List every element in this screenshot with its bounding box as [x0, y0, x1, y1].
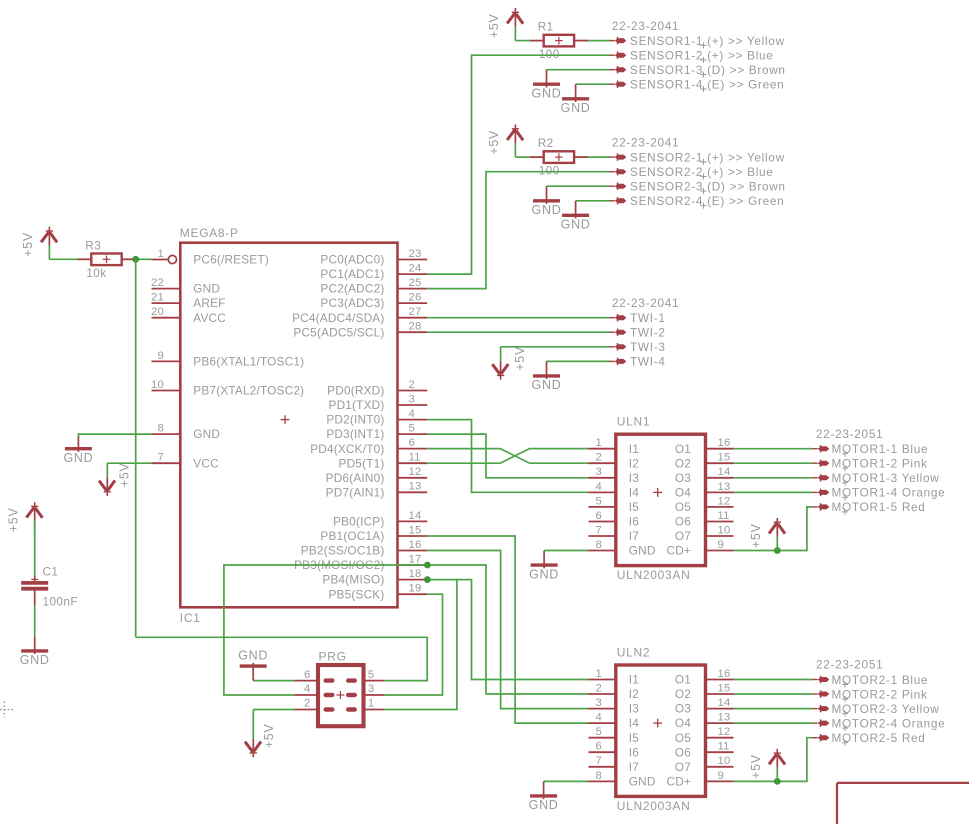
svg-text:+5V: +5V — [513, 346, 527, 371]
partial component frame bottom-right — [837, 783, 969, 824]
svg-text:16: 16 — [409, 539, 422, 551]
connector pin arrow TWI-3 — [610, 343, 627, 350]
svg-text:11: 11 — [718, 510, 730, 522]
connector pin arrow MOTOR2-1 — [813, 676, 830, 683]
pin origin cross SENSOR2-2 — [701, 174, 707, 180]
svg-text:PD2(INT0): PD2(INT0) — [326, 413, 384, 427]
pin origin cross SENSOR1-1 — [701, 42, 707, 48]
svg-text:19: 19 — [409, 583, 422, 595]
svg-text:CD+: CD+ — [666, 544, 691, 558]
svg-text:SENSOR2-1 (+) >> Yellow: SENSOR2-1 (+) >> Yellow — [630, 150, 785, 164]
IC1 pin 26 PC3(ADC3) — [320, 292, 427, 311]
svg-text:7: 7 — [596, 524, 602, 536]
svg-text:26: 26 — [409, 292, 422, 304]
svg-text:1: 1 — [596, 437, 602, 449]
svg-text:GND: GND — [532, 378, 562, 392]
IC IC1 MEGA8-P body — [180, 226, 398, 625]
sheet origin crosshair — [0, 702, 14, 718]
wire ULN1 O3 to MOTOR1-3 — [734, 477, 813, 479]
+5V supply at ULN2 CD+ — [749, 749, 785, 782]
wire ULN1 O1 to MOTOR1-1 — [734, 448, 813, 450]
ULN2 pin 10 O7 — [675, 755, 734, 774]
svg-text:11: 11 — [409, 452, 421, 464]
IC1 pin 5 PD3(INT1) — [326, 423, 427, 442]
svg-text:14: 14 — [718, 697, 731, 709]
IC1 pin 16 PB2(SS/OC1B) — [301, 539, 427, 558]
svg-text:GND: GND — [20, 653, 50, 667]
ground at TWI-4 — [532, 361, 562, 392]
svg-text:PC1(ADC1): PC1(ADC1) — [320, 267, 384, 281]
svg-text:3: 3 — [409, 393, 415, 405]
wire IC1 PD3 to ULN1 I3 — [427, 434, 588, 478]
ULN2 pin 6 I6 — [589, 741, 640, 760]
wire R1 to SENSOR1-1 — [588, 40, 610, 42]
svg-text:22: 22 — [151, 277, 164, 289]
wire IC1 PB2 to ULN2 I3 — [427, 551, 588, 709]
svg-text:SENSOR2-4 (E) >> Green: SENSOR2-4 (E) >> Green — [630, 194, 784, 208]
ULN2 pin 7 I7 — [589, 755, 640, 774]
wire +5V to R1 — [515, 40, 529, 42]
svg-text:8: 8 — [596, 539, 602, 551]
svg-text:GND: GND — [561, 101, 591, 115]
wire ULN1 CD+ to +5V and MOTOR1-5 — [734, 507, 813, 551]
ULN1 pin 10 O7 — [675, 524, 734, 543]
svg-text:+5V: +5V — [487, 13, 501, 38]
svg-text:SENSOR2-3 (D) >> Brown: SENSOR2-3 (D) >> Brown — [630, 180, 786, 194]
svg-text:O1: O1 — [675, 442, 691, 456]
svg-text:C1: C1 — [43, 565, 59, 579]
wire SENSOR1-2 to IC1 PC1 — [427, 55, 610, 274]
svg-text:23: 23 — [409, 248, 422, 260]
ULN1 pin 16 O1 — [675, 437, 734, 456]
svg-text:I3: I3 — [629, 471, 639, 485]
svg-text:GND: GND — [238, 649, 268, 663]
svg-text:13: 13 — [409, 481, 422, 493]
IC1 pin 24 PC1(ADC1) — [320, 262, 427, 281]
pin origin cross SENSOR2-1 — [701, 159, 707, 165]
ULN2 pin 15 O2 — [675, 682, 734, 701]
svg-text:4: 4 — [304, 683, 310, 695]
svg-text:10: 10 — [151, 379, 164, 391]
svg-text:I6: I6 — [629, 515, 639, 529]
svg-text:I5: I5 — [629, 500, 639, 514]
IC1 pin 17 PB3(MOSI/OC2) — [294, 553, 427, 572]
svg-text:GND: GND — [63, 451, 93, 465]
svg-text:6: 6 — [409, 437, 415, 449]
ground at SENSOR2-4 — [561, 201, 591, 232]
svg-text:100nF: 100nF — [43, 595, 78, 609]
IC1 pin 28 PC5(ADC5/SCL) — [293, 321, 427, 340]
svg-text:MEGA8-P: MEGA8-P — [180, 226, 239, 240]
wire IC1 PB5 SCK to PRG pin3 — [385, 594, 443, 695]
pin origin cross MOTOR1-3 — [842, 480, 848, 486]
svg-text:21: 21 — [151, 292, 164, 304]
wire IC1 PB1 to ULN2 I4 — [427, 536, 588, 723]
ULN1 pin 11 O6 — [675, 510, 734, 529]
svg-text:3: 3 — [368, 683, 374, 695]
svg-text:GND: GND — [193, 427, 220, 441]
IC1 pin 13 PD7(AIN1) — [326, 481, 428, 500]
svg-text:O7: O7 — [675, 760, 691, 774]
svg-text:14: 14 — [718, 466, 731, 478]
wire IC1 pin8 GND — [78, 434, 151, 438]
svg-text:12: 12 — [409, 466, 422, 478]
connector PRG body — [318, 650, 364, 727]
pin origin cross MOTOR2-3 — [842, 711, 848, 717]
wire TWI-3 to +5V — [501, 346, 611, 348]
svg-text:TWI-1: TWI-1 — [630, 311, 666, 325]
svg-text:I1: I1 — [629, 673, 639, 687]
wire IC1 PC5 to TWI-2 — [427, 331, 610, 333]
svg-text:GND: GND — [529, 798, 559, 812]
svg-text:I3: I3 — [629, 702, 639, 716]
wire IC1 PC4 to TWI-1 — [427, 317, 610, 319]
svg-text:2: 2 — [596, 682, 602, 694]
svg-text:22-23-2051: 22-23-2051 — [816, 658, 883, 672]
IC1 pin 18 PB4(MISO) — [322, 568, 427, 587]
svg-text:PD4(XCK/T0): PD4(XCK/T0) — [310, 442, 384, 456]
wire SENSOR2-3 to GND — [547, 185, 611, 187]
+5V supply at R1 — [487, 8, 523, 41]
svg-text:28: 28 — [409, 321, 422, 333]
svg-text:3: 3 — [596, 697, 602, 709]
svg-text:2: 2 — [409, 379, 415, 391]
pin origin cross SENSOR1-2 — [701, 57, 707, 63]
svg-text:1: 1 — [368, 698, 374, 710]
ULN2 pin 16 O1 — [675, 668, 734, 687]
ULN1 pin 5 I5 — [589, 495, 640, 514]
svg-text:O6: O6 — [675, 745, 691, 759]
PRG pin 4 — [294, 683, 334, 697]
wire ULN2 O1 to MOTOR2-1 — [734, 679, 813, 681]
svg-text:PD6(AIN0): PD6(AIN0) — [326, 471, 385, 485]
svg-text:16: 16 — [718, 437, 731, 449]
svg-text:10k: 10k — [86, 266, 106, 280]
svg-text:18: 18 — [409, 568, 422, 580]
svg-text:6: 6 — [596, 510, 602, 522]
svg-text:+5V: +5V — [117, 462, 131, 487]
svg-text:O3: O3 — [675, 471, 691, 485]
svg-text:5: 5 — [409, 423, 415, 435]
PRG pin 3 — [346, 683, 385, 697]
IC1 pin 9 PB6(XTAL1/TOSC1) — [152, 350, 305, 369]
wire SENSOR2-2 to IC1 PC2 — [427, 172, 610, 289]
ULN2 pin 8 GND — [589, 770, 656, 789]
svg-text:11: 11 — [718, 741, 730, 753]
svg-text:PC5(ADC5/SCL): PC5(ADC5/SCL) — [293, 325, 384, 339]
svg-text:PD1(TXD): PD1(TXD) — [329, 398, 385, 412]
svg-text:VCC: VCC — [193, 456, 219, 470]
svg-text:O6: O6 — [675, 515, 691, 529]
pin origin cross SENSOR1-4 — [701, 86, 707, 92]
wire ULN1 pin8 GND — [544, 550, 588, 552]
junction PB4 MISO — [424, 576, 431, 583]
resistor R3 10k — [77, 238, 135, 279]
connector pin arrow SENSOR2-3 — [610, 183, 627, 190]
ULN1 pin 12 O5 — [675, 495, 734, 514]
ULN1 pin 13 O4 — [675, 481, 734, 500]
svg-text:I2: I2 — [629, 687, 639, 701]
wire PRG pin2 to +5V — [253, 709, 294, 711]
svg-text:O5: O5 — [675, 500, 691, 514]
svg-text:TWI-2: TWI-2 — [630, 326, 666, 340]
svg-text:O7: O7 — [675, 529, 691, 543]
+5V supply at R2 — [487, 125, 523, 158]
pin origin cross MOTOR1-4 — [842, 494, 848, 500]
ULN1 pin 9 CD+ — [666, 539, 733, 558]
wire ULN2 O3 to MOTOR2-3 — [734, 708, 813, 710]
wire C1 to GND — [34, 605, 36, 637]
capacitor C1 100nF — [21, 520, 78, 608]
wire IC1 PD5 to ULN1 I1 (crossover) — [427, 449, 588, 464]
wire IC1 PD4 to ULN1 I2 (crossover) — [427, 449, 588, 464]
connector pin arrow SENSOR1-1 — [610, 37, 627, 44]
ground at SENSOR1-3 — [532, 70, 562, 101]
svg-text:PC0(ADC0): PC0(ADC0) — [320, 253, 384, 267]
PRG pin 6 — [294, 669, 334, 683]
svg-text:SENSOR1-1 (+) >> Yellow: SENSOR1-1 (+) >> Yellow — [630, 34, 785, 48]
svg-text:MOTOR2-4 Orange: MOTOR2-4 Orange — [832, 716, 946, 730]
wire +5V to R2 — [515, 156, 529, 158]
pin origin cross SENSOR2-3 — [701, 188, 707, 194]
svg-text:I4: I4 — [629, 716, 639, 730]
svg-text:AVCC: AVCC — [193, 311, 226, 325]
svg-text:PRG: PRG — [319, 650, 347, 664]
svg-text:PD7(AIN1): PD7(AIN1) — [326, 485, 385, 499]
svg-text:24: 24 — [409, 262, 422, 274]
connector pin arrow MOTOR2-4 — [813, 719, 830, 727]
svg-text:ULN1: ULN1 — [617, 415, 650, 429]
ULN1 pin 15 O2 — [675, 452, 734, 471]
junction ULN1 CD+ +5V — [774, 547, 781, 554]
IC1 pin 7 VCC — [152, 452, 220, 471]
svg-text:PB5(SCK): PB5(SCK) — [328, 587, 384, 601]
pin origin cross SENSOR1-3 — [701, 72, 707, 78]
ULN2 pin 1 I1 — [589, 668, 640, 687]
svg-text:PD3(INT1): PD3(INT1) — [326, 427, 384, 441]
svg-text:22-23-2041: 22-23-2041 — [612, 135, 679, 149]
svg-text:ULN2003AN: ULN2003AN — [617, 568, 691, 582]
svg-text:PB6(XTAL1/TOSC1): PB6(XTAL1/TOSC1) — [193, 355, 304, 369]
svg-text:8: 8 — [158, 423, 164, 435]
svg-text:IC1: IC1 — [180, 611, 201, 625]
IC ULN1 ULN2003AN body — [616, 415, 706, 583]
svg-text:PC6(/RESET): PC6(/RESET) — [193, 253, 269, 267]
svg-text:+5V: +5V — [262, 723, 276, 748]
wire PB4 MISO to PRG pin1 — [385, 580, 457, 710]
ULN2 pin 12 O5 — [675, 726, 734, 745]
IC1 pin 1 PC6(/RESET) — [152, 248, 269, 267]
wire R2 to SENSOR2-1 — [588, 156, 610, 158]
svg-text:O2: O2 — [675, 687, 691, 701]
svg-text:CD+: CD+ — [666, 775, 691, 789]
IC1 pin 10 PB7(XTAL2/TOSC2) — [151, 379, 304, 398]
connector pin arrow MOTOR1-2 — [813, 460, 830, 467]
svg-text:GND: GND — [529, 567, 559, 581]
ULN1 pin 14 O3 — [675, 466, 734, 485]
svg-text:GND: GND — [629, 775, 656, 789]
wire IC1 PB4 to ULN2 I1 — [427, 580, 588, 680]
connector pin arrow TWI-2 — [610, 329, 627, 336]
ULN2 pin 4 I4 — [589, 712, 640, 731]
+5V supply at ULN1 CD+ — [749, 518, 785, 551]
ULN2 pin 2 I2 — [589, 682, 640, 701]
connector pin arrow SENSOR1-2 — [610, 52, 627, 59]
ULN2 pin 3 I3 — [589, 697, 640, 716]
svg-text:GND: GND — [193, 282, 220, 296]
svg-text:MOTOR1-4 Orange: MOTOR1-4 Orange — [832, 486, 946, 500]
svg-text:8: 8 — [596, 770, 602, 782]
svg-text:9: 9 — [718, 539, 724, 551]
IC1 pin 3 PD1(TXD) — [329, 393, 428, 412]
svg-text:I5: I5 — [629, 731, 639, 745]
svg-text:PC2(ADC2): PC2(ADC2) — [320, 282, 384, 296]
svg-text:4: 4 — [596, 712, 602, 724]
svg-text:+5V: +5V — [487, 130, 501, 155]
connector pin arrow MOTOR1-3 — [813, 474, 830, 481]
svg-text:+5V: +5V — [21, 232, 35, 257]
junction PB3 MOSI — [424, 562, 431, 569]
wire +5V to R3 — [49, 258, 77, 260]
IC1 pin 15 PB1(OC1A) — [320, 524, 427, 543]
connector pin arrow SENSOR1-3 — [610, 66, 627, 73]
ULN2 pin 13 O4 — [675, 712, 734, 731]
svg-text:O2: O2 — [675, 456, 691, 470]
svg-text:7: 7 — [158, 452, 164, 464]
svg-text:TWI-3: TWI-3 — [630, 340, 666, 354]
svg-text:17: 17 — [409, 553, 422, 565]
ground at PRG pin6 — [238, 649, 268, 681]
svg-text:3: 3 — [596, 466, 602, 478]
connector pin arrow MOTOR2-2 — [813, 690, 830, 698]
connector pin arrow SENSOR2-2 — [610, 168, 627, 175]
wire SENSOR1-3 to GND — [547, 69, 611, 71]
pin origin cross MOTOR2-2 — [842, 696, 848, 702]
pin origin cross MOTOR1-5 — [842, 509, 848, 515]
svg-text:O1: O1 — [675, 673, 691, 687]
svg-text:100: 100 — [539, 47, 560, 61]
pin origin cross MOTOR1-1 — [842, 451, 848, 457]
+5V supply at R3 — [21, 227, 57, 260]
ULN1 pin 1 I1 — [589, 437, 640, 456]
svg-text:GND: GND — [629, 544, 656, 558]
connector pin arrow TWI-1 — [610, 314, 627, 321]
svg-text:PD5(T1): PD5(T1) — [339, 456, 385, 470]
svg-text:6: 6 — [304, 669, 310, 681]
wire ULN1 O2 to MOTOR1-2 — [734, 462, 813, 464]
IC1 pin 11 PD5(T1) — [339, 452, 428, 471]
IC1 pin 23 PC0(ADC0) — [320, 248, 427, 267]
connector pin arrow SENSOR1-4 — [610, 81, 627, 89]
svg-text:R1: R1 — [538, 20, 554, 34]
pin origin cross MOTOR2-4 — [842, 725, 848, 731]
wire ULN1 O4 to MOTOR1-4 — [734, 491, 813, 493]
ground at ULN1 pin8 — [529, 551, 559, 582]
svg-text:O5: O5 — [675, 731, 691, 745]
connector pin arrow SENSOR2-1 — [610, 153, 627, 160]
svg-text:22-23-2041: 22-23-2041 — [612, 296, 679, 310]
svg-text:TWI-4: TWI-4 — [630, 355, 666, 369]
svg-text:22-23-2051: 22-23-2051 — [816, 427, 883, 441]
svg-text:+5V: +5V — [7, 507, 21, 532]
pin origin cross MOTOR2-1 — [842, 682, 848, 688]
svg-text:I1: I1 — [629, 442, 639, 456]
svg-text:PB2(SS/OC1B): PB2(SS/OC1B) — [301, 544, 385, 558]
ground at SENSOR2-3 — [532, 186, 562, 217]
svg-text:PC4(ADC4/SDA): PC4(ADC4/SDA) — [292, 311, 384, 325]
wire IC1 PB3 to PRG pin4 MOSI (over IC) — [224, 565, 428, 695]
ULN1 pin 7 I7 — [589, 524, 640, 543]
svg-text:SENSOR1-4 (E) >> Green: SENSOR1-4 (E) >> Green — [630, 78, 784, 92]
connector pin arrow SENSOR2-4 — [610, 197, 627, 204]
svg-text:9: 9 — [718, 770, 724, 782]
+5V supply at C1 — [7, 502, 43, 535]
ground at ULN2 pin8 — [529, 781, 559, 812]
svg-text:GND: GND — [532, 203, 562, 217]
svg-text:I4: I4 — [629, 486, 639, 500]
svg-text:9: 9 — [158, 350, 164, 362]
IC1 pin 25 PC2(ADC2) — [320, 277, 427, 296]
svg-text:GND: GND — [532, 87, 562, 101]
svg-text:15: 15 — [718, 682, 731, 694]
ground at SENSOR1-4 — [561, 84, 591, 115]
svg-text:12: 12 — [718, 495, 731, 507]
svg-text:O4: O4 — [675, 486, 691, 500]
svg-text:15: 15 — [409, 524, 422, 536]
pin origin cross SENSOR2-4 — [701, 203, 707, 209]
svg-text:15: 15 — [718, 452, 731, 464]
IC1 pin 19 PB5(SCK) — [328, 583, 427, 602]
svg-text:SENSOR1-3 (D) >> Brown: SENSOR1-3 (D) >> Brown — [630, 63, 786, 77]
resistor R2 100 — [530, 136, 588, 178]
svg-text:I7: I7 — [629, 760, 639, 774]
IC1 pin 4 PD2(INT0) — [326, 408, 427, 427]
IC1 pin 27 PC4(ADC4/SDA) — [292, 306, 427, 325]
svg-text:4: 4 — [596, 481, 602, 493]
junction ULN2 CD+ +5V — [774, 778, 781, 785]
connector pin arrow MOTOR2-5 — [813, 734, 830, 741]
svg-text:R2: R2 — [538, 136, 554, 150]
wire RESET horizontal run to PRG — [136, 637, 428, 680]
wire IC1 pin7 VCC to +5V — [107, 462, 151, 464]
wire SENSOR2-4 to GND — [576, 200, 611, 202]
svg-text:7: 7 — [596, 755, 602, 767]
wire ULN2 pin8 GND — [544, 780, 589, 782]
connector pin arrow MOTOR1-1 — [813, 445, 830, 452]
pin origin cross MOTOR1-2 — [842, 465, 848, 471]
IC1 pin 8 GND — [152, 423, 221, 442]
PRG pin 5 — [346, 669, 385, 683]
svg-text:PC3(ADC3): PC3(ADC3) — [320, 296, 384, 310]
wire ULN2 O2 to MOTOR2-2 — [734, 693, 813, 695]
svg-text:5: 5 — [368, 669, 374, 681]
ULN1 pin 3 I3 — [589, 466, 640, 485]
svg-text:13: 13 — [718, 712, 731, 724]
svg-text:O4: O4 — [675, 716, 691, 730]
svg-text:O3: O3 — [675, 702, 691, 716]
wire ULN2 CD+ to +5V and MOTOR2-5 — [734, 738, 813, 782]
svg-text:ULN2003AN: ULN2003AN — [617, 799, 691, 813]
wire RESET vertical run — [135, 259, 137, 637]
svg-text:PB4(MISO): PB4(MISO) — [322, 573, 384, 587]
svg-text:13: 13 — [718, 481, 731, 493]
ULN2 pin 14 O3 — [675, 697, 734, 716]
svg-text:+5V: +5V — [749, 754, 763, 779]
connector pin arrow MOTOR1-4 — [813, 489, 830, 496]
svg-text:22-23-2041: 22-23-2041 — [612, 19, 679, 33]
svg-text:25: 25 — [409, 277, 422, 289]
svg-text:2: 2 — [596, 452, 602, 464]
